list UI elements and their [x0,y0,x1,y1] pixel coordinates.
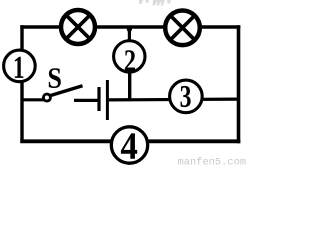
meter circle 1 [4,50,36,82]
battery long plate [106,80,109,120]
digit label 3 [181,86,191,107]
lamp L1 [61,10,95,44]
digit label 1 [15,57,24,78]
label S [49,68,61,88]
wire stub circle2 to middle branch [128,71,131,101]
svg-text:manfen5.com: manfen5.com [178,157,247,168]
digit label 2 [125,50,135,71]
circle ring 2 [114,41,145,72]
switch S lever [50,86,83,96]
lamp L2 [165,11,200,46]
junction dot [127,27,132,32]
wire middle-left to switch [22,98,44,101]
wire switch to battery [74,99,98,102]
circle ring 4 [111,127,147,163]
circle ring 1 [4,50,36,82]
wire right [237,25,241,143]
wire stub top-junction to circle2 [128,27,131,42]
circle ring 3 [170,80,203,113]
wire battery to right side [109,97,239,101]
watermark top fragment [139,0,171,6]
meter circle 4 [111,127,147,163]
wire bottom [20,139,240,143]
wire left [20,25,23,142]
switch S pivot [43,94,50,101]
meter circle 3 [170,80,203,113]
battery short plate [97,87,100,111]
meter circle 2 [114,41,145,72]
wire top [20,25,240,28]
digit label 4 [121,133,137,158]
